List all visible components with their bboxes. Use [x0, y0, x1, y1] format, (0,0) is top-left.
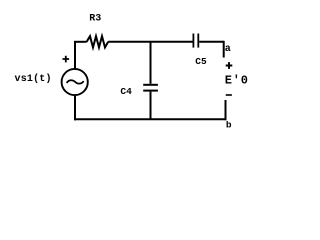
svg-text:a: a	[225, 44, 231, 55]
capacitor C4 top plate	[143, 84, 158, 86]
capacitor C4 bottom plate	[143, 90, 158, 92]
resistor R3	[87, 36, 109, 47]
wire: top rail left segment to resistor	[74, 41, 87, 43]
capacitor C4 top lead	[150, 41, 152, 84]
plus sign of output E'0	[226, 62, 233, 69]
minus sign of output E'0	[226, 94, 232, 96]
source sine wave	[67, 80, 84, 83]
capacitor C5 right plate	[197, 34, 199, 48]
wire: top-right stub down to terminal a	[223, 41, 225, 58]
svg-text:E'0: E'0	[225, 74, 249, 88]
source vs1(t) circle	[62, 69, 88, 95]
svg-text:C5: C5	[195, 56, 207, 67]
svg-text:R3: R3	[89, 14, 101, 25]
wire: bottom rail	[74, 118, 227, 120]
svg-text:vs1(t): vs1(t)	[15, 73, 52, 85]
capacitor C5 left plate	[192, 34, 194, 48]
wire: top rail from resistor to C5 left plate	[108, 41, 192, 43]
wire: bottom-right stub from terminal b up	[225, 100, 227, 120]
source polarity plus	[63, 56, 70, 63]
wire: top rail from C5 to top-right corner	[199, 41, 224, 43]
svg-text:b: b	[226, 120, 232, 131]
wire: top-left vertical from source top to top rail	[74, 42, 76, 69]
wire: source bottom lead	[74, 96, 76, 121]
capacitor C4 bottom lead	[150, 92, 152, 120]
svg-text:C4: C4	[120, 86, 132, 97]
